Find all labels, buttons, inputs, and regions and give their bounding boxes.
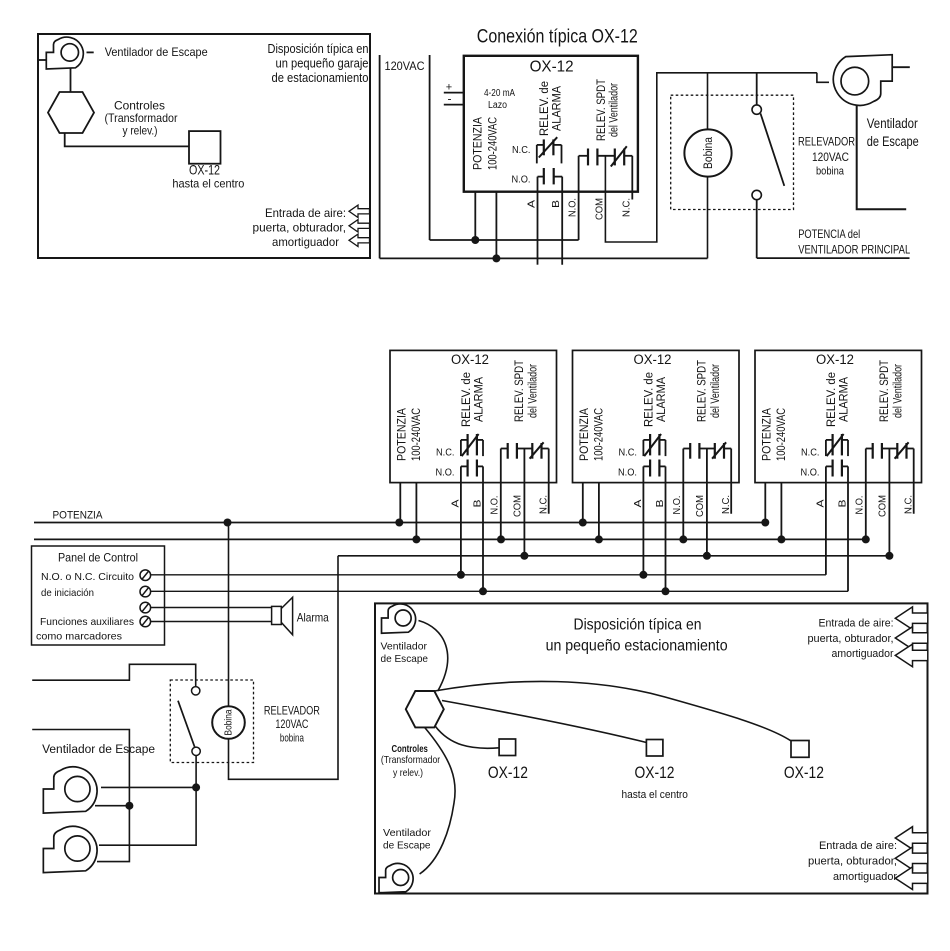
coil Bobina (lower relay) xyxy=(212,706,245,739)
OX-12 sensor square 2 xyxy=(646,740,663,757)
U3 SPDT fan relay contacts xyxy=(683,442,731,458)
wire: fan right stub xyxy=(87,51,94,53)
svg-text:N.C.: N.C. xyxy=(619,447,638,459)
svg-text:N.O.: N.O. xyxy=(488,496,500,515)
wire: hot bus to relay N.O. xyxy=(430,239,579,241)
svg-text:OX-12: OX-12 xyxy=(189,162,220,178)
svg-text:de Escape: de Escape xyxy=(383,840,431,852)
svg-text:ALARMA: ALARMA xyxy=(836,376,850,422)
4-20 mA loop terminal plus bar xyxy=(444,92,464,94)
coil Bobina (120VAC relay) xyxy=(684,129,731,176)
svg-text:RELEVADOR: RELEVADOR xyxy=(798,135,855,149)
svg-text:B: B xyxy=(550,200,562,208)
main exhaust fan top-right xyxy=(833,55,892,106)
svg-text:Ventilador de Escape: Ventilador de Escape xyxy=(42,744,155,756)
svg-text:N.O.: N.O. xyxy=(512,174,531,186)
air inlet arrow (top right) xyxy=(895,644,928,667)
svg-text:A: A xyxy=(632,500,644,508)
svg-text:ALARMA: ALARMA xyxy=(654,376,668,422)
U2 wire terminal N.O. xyxy=(500,449,502,540)
OX-12 detector unit U2 xyxy=(390,350,557,482)
junction dot bus3 xyxy=(703,552,711,560)
svg-text:B: B xyxy=(471,500,483,508)
svg-text:POTENZIA: POTENZIA xyxy=(471,116,485,170)
svg-text:bobina: bobina xyxy=(816,166,845,178)
enclosure box: Disposicion tipica estacionamiento xyxy=(375,603,928,893)
svg-text:un pequeño estacionamiento: un pequeño estacionamiento xyxy=(546,638,728,655)
svg-text:ALARMA: ALARMA xyxy=(471,376,485,422)
svg-text:amortiguador: amortiguador xyxy=(832,648,894,660)
junction dot initiation 2 xyxy=(479,587,487,595)
svg-text:N.O.: N.O. xyxy=(436,467,455,479)
svg-text:Entrada de aire:: Entrada de aire: xyxy=(265,206,346,220)
U2 wire POTENZIA 2 xyxy=(415,483,417,540)
svg-text:RELEV. SPDT: RELEV. SPDT xyxy=(695,360,709,422)
wire feed to fan 1 xyxy=(101,786,196,788)
wire terminal N.O. to hot bus xyxy=(578,156,580,240)
U4 wire POTENZIA 2 xyxy=(780,483,782,540)
svg-text:Disposición típica en: Disposición típica en xyxy=(268,42,369,56)
relay switch bottom contact xyxy=(192,747,200,755)
alarm relay N.C. contact (unused stubs) xyxy=(537,137,562,163)
svg-text:del Ventilador: del Ventilador xyxy=(890,364,904,418)
svg-text:100-240VAC: 100-240VAC xyxy=(774,408,788,461)
bus wire COM collector xyxy=(338,555,889,557)
svg-text:y relev.): y relev.) xyxy=(123,123,158,137)
svg-text:OX-12: OX-12 xyxy=(816,352,854,367)
svg-text:N.O.: N.O. xyxy=(853,496,865,515)
wire terminal B xyxy=(561,177,563,265)
alarm speaker xyxy=(272,597,293,635)
wire: main fan power line xyxy=(757,257,910,259)
svg-text:N.C.: N.C. xyxy=(801,447,820,459)
relay switch blade xyxy=(178,701,195,747)
svg-text:B: B xyxy=(836,500,848,508)
wire bus1 down to coil Bobina xyxy=(228,523,230,708)
svg-text:N.O. o N.C. Circuito: N.O. o N.C. Circuito xyxy=(41,571,134,583)
svg-text:4-20 mA: 4-20 mA xyxy=(484,88,515,99)
air inlet arrow (bottom right) xyxy=(895,827,928,850)
junction dot initiation 1 xyxy=(639,571,647,579)
wire: hexagon to OX-12 sensor xyxy=(65,133,189,146)
svg-text:Ventilador: Ventilador xyxy=(383,827,432,839)
svg-text:puerta, obturador,: puerta, obturador, xyxy=(808,633,894,645)
junction dot bus2 xyxy=(412,535,420,543)
svg-text:RELEVADOR: RELEVADOR xyxy=(264,706,320,718)
svg-text:Panel de Control: Panel de Control xyxy=(58,551,138,565)
OX-12 sensor square xyxy=(189,131,221,164)
svg-text:de estacionamiento: de estacionamiento xyxy=(272,71,369,85)
U3 wire terminal B xyxy=(665,466,667,591)
svg-text:N.C.: N.C. xyxy=(537,495,549,514)
svg-text:N.O.: N.O. xyxy=(567,198,579,217)
svg-text:POTENZIA: POTENZIA xyxy=(53,510,104,522)
panel screw terminal 2 xyxy=(140,586,151,597)
dashed outline relay (lower) xyxy=(170,680,253,763)
U2 SPDT fan relay contacts xyxy=(501,442,549,458)
controls hexagon (transformer and relays) xyxy=(48,92,94,133)
wire terminal COM to relay coil xyxy=(605,73,817,242)
svg-text:de iniciación: de iniciación xyxy=(41,587,94,599)
svg-text:Funciones auxiliares: Funciones auxiliares xyxy=(40,616,134,628)
svg-text:120VAC: 120VAC xyxy=(385,59,425,73)
svg-text:100-240VAC: 100-240VAC xyxy=(591,408,605,461)
svg-text:Ventilador: Ventilador xyxy=(867,116,918,131)
wire POTENZIA terminal 2 xyxy=(495,192,497,259)
svg-text:N.C.: N.C. xyxy=(902,495,914,514)
SPDT fan relay contacts xyxy=(579,146,633,166)
U2 wire terminal COM xyxy=(523,449,525,556)
wire: fan to controls hexagon xyxy=(70,66,72,93)
controls hexagon (parking) xyxy=(406,691,444,727)
wire curve hexagon to OX-12 sensor 1 xyxy=(436,727,500,749)
U4 wire terminal N.C. stub xyxy=(913,449,915,514)
junction dot bus2 xyxy=(679,535,687,543)
svg-text:OX-12: OX-12 xyxy=(451,352,489,367)
svg-text:POTENZIA: POTENZIA xyxy=(394,407,408,461)
U2 wire terminal B xyxy=(482,466,484,591)
U4 alarm relay N.C. contact xyxy=(826,434,848,456)
U3 wire terminal COM xyxy=(706,449,708,556)
wire auxiliary 2 to alarm xyxy=(151,621,272,623)
svg-text:puerta, obturador,: puerta, obturador, xyxy=(808,855,897,867)
svg-text:POTENZIA: POTENZIA xyxy=(759,407,773,461)
svg-text:del Ventilador: del Ventilador xyxy=(708,364,722,418)
junction dot fan return xyxy=(125,802,133,810)
junction dot initiation 2 xyxy=(662,587,670,595)
svg-text:Bobina: Bobina xyxy=(703,136,715,169)
wire curve hexagon to OX-12 sensor 2 xyxy=(442,701,646,743)
panel screw terminal 1 xyxy=(140,570,151,581)
wire: box edge to exhaust fan inlet xyxy=(38,59,46,61)
svg-text:de Escape: de Escape xyxy=(867,134,919,149)
svg-text:N.C.: N.C. xyxy=(512,144,531,156)
svg-text:OX-12: OX-12 xyxy=(784,764,824,782)
junction dot bus2 xyxy=(497,535,505,543)
svg-text:Ventilador de Escape: Ventilador de Escape xyxy=(105,45,208,59)
U2 wire terminal A xyxy=(460,466,462,574)
junction dot bus3 xyxy=(885,552,893,560)
relay switch top contact xyxy=(756,73,758,105)
U4 wire terminal N.O. xyxy=(865,449,867,540)
OX-12 sensor square 1 xyxy=(499,739,515,756)
svg-text:OX-12: OX-12 xyxy=(634,352,672,367)
U4 wire terminal COM xyxy=(888,449,890,556)
svg-text:Disposición típica en: Disposición típica en xyxy=(574,617,702,634)
wire: 120VAC supply right leg xyxy=(429,55,431,240)
svg-text:hasta el centro: hasta el centro xyxy=(172,177,244,191)
junction dot bus1 xyxy=(224,519,232,527)
wire: relay to main exhaust fan xyxy=(817,73,829,83)
junction dot bus2 xyxy=(862,535,870,543)
junction dot POTENZIA hot xyxy=(471,236,479,244)
air inlet arrow xyxy=(349,234,370,246)
wire stub lower / fans return xyxy=(32,730,129,862)
U4 wire terminal A xyxy=(825,466,827,574)
svg-text:B: B xyxy=(654,500,666,508)
svg-text:N.O.: N.O. xyxy=(801,467,820,479)
exhaust fan 1 (lower-left) xyxy=(43,767,97,813)
U2 wire terminal N.C. stub xyxy=(548,449,550,514)
svg-text:POTENZIA: POTENZIA xyxy=(577,407,591,461)
svg-text:N.C.: N.C. xyxy=(436,447,455,459)
svg-text:N.O.: N.O. xyxy=(671,496,683,515)
wire terminal A xyxy=(537,177,539,265)
svg-text:N.C.: N.C. xyxy=(720,495,732,514)
svg-text:RELEV. SPDT: RELEV. SPDT xyxy=(877,360,891,422)
svg-text:bobina: bobina xyxy=(280,733,305,745)
svg-text:Lazo: Lazo xyxy=(488,100,507,111)
exhaust fan 2 (lower-left) xyxy=(43,826,97,872)
wire: 120VAC supply left leg xyxy=(379,55,381,258)
svg-text:del Ventilador: del Ventilador xyxy=(606,83,620,137)
svg-text:COM: COM xyxy=(593,198,605,220)
dashed outline: relay 120VAC xyxy=(671,95,794,209)
wire curve hexagon to fan2 xyxy=(420,727,456,874)
svg-text:OX-12: OX-12 xyxy=(635,764,675,782)
svg-text:Bobina: Bobina xyxy=(224,709,235,735)
svg-text:N.O.: N.O. xyxy=(618,467,637,479)
svg-text:120VAC: 120VAC xyxy=(275,719,308,731)
svg-text:RELEV. SPDT: RELEV. SPDT xyxy=(512,360,526,422)
wire Bobina to COM bus xyxy=(229,556,339,780)
U4 alarm relay N.O. contact xyxy=(826,460,848,477)
wire: neutral bus to coil xyxy=(380,257,708,259)
svg-text:A: A xyxy=(526,200,538,208)
relay switch blade xyxy=(761,114,785,186)
bus wire POTENZIA line 2 xyxy=(34,538,866,540)
svg-text:COM: COM xyxy=(694,495,706,517)
U3 wire POTENZIA 2 xyxy=(598,483,600,540)
OX-12 sensor square 3 xyxy=(791,741,809,758)
wire POTENZIA terminal 1 xyxy=(474,192,476,240)
Panel de Control box xyxy=(32,546,165,645)
svg-text:COM: COM xyxy=(876,495,888,517)
junction dot bus2 xyxy=(777,535,785,543)
U3 wire terminal N.C. stub xyxy=(730,449,732,514)
wire switch to fans feed xyxy=(99,756,196,846)
wire curve hexagon to OX-12 sensor 3 xyxy=(435,681,791,740)
svg-text:amortiguador: amortiguador xyxy=(272,235,339,249)
wire terminal N.C. stub xyxy=(631,156,633,200)
svg-text:y relev.): y relev.) xyxy=(393,767,423,779)
U3 wire terminal A xyxy=(642,466,644,574)
exhaust fan top (parking) xyxy=(382,604,416,633)
svg-text:-: - xyxy=(448,92,452,106)
wire auxiliary 1 to alarm xyxy=(151,607,272,609)
wire initiation circuit 1 xyxy=(151,574,826,576)
U4 SPDT fan relay contacts xyxy=(866,442,914,458)
OX-12 detector unit U3 xyxy=(573,350,740,482)
panel screw terminal 4 xyxy=(140,616,151,627)
svg-text:puerta, obturador,: puerta, obturador, xyxy=(253,221,347,235)
junction dot bus2 xyxy=(595,535,603,543)
svg-text:POTENCIA del: POTENCIA del xyxy=(798,227,860,241)
svg-text:(Transformador: (Transformador xyxy=(381,754,441,766)
U3 wire POTENZIA 1 xyxy=(582,483,584,523)
alarm relay N.O. contact xyxy=(538,168,563,184)
air inlet arrow (top right) xyxy=(895,627,928,650)
svg-text:OX-12: OX-12 xyxy=(488,764,528,782)
svg-text:Ventilador: Ventilador xyxy=(381,641,428,653)
OX-12 main unit box U1 xyxy=(464,56,638,192)
wire: fan bottom down and right xyxy=(857,105,907,209)
wire Bobina to neutral bus xyxy=(707,177,709,259)
air inlet arrow (bottom right) xyxy=(895,867,928,890)
svg-text:hasta el centro: hasta el centro xyxy=(621,789,688,801)
wire curve fan1 to hexagon xyxy=(419,621,448,692)
relay coil feed wire down to Bobina xyxy=(707,73,709,130)
U2 wire POTENZIA 1 xyxy=(399,483,401,523)
svg-text:A: A xyxy=(449,500,461,508)
U2 alarm relay N.O. contact xyxy=(461,460,483,477)
U3 alarm relay N.O. contact xyxy=(643,460,665,477)
svg-text:un pequeño garaje: un pequeño garaje xyxy=(276,57,369,71)
junction dot fan feed xyxy=(192,783,200,791)
wire stub to relay switch top xyxy=(32,664,196,686)
svg-text:de Escape: de Escape xyxy=(381,653,429,665)
junction dot initiation 1 xyxy=(457,571,465,579)
svg-text:VENTILADOR PRINCIPAL: VENTILADOR PRINCIPAL xyxy=(798,243,910,257)
svg-text:COM: COM xyxy=(511,495,523,517)
4-20 mA loop terminal minus bar xyxy=(444,104,464,106)
junction dot bus1 xyxy=(579,519,587,527)
svg-text:100-240VAC: 100-240VAC xyxy=(409,408,423,461)
svg-text:Entrada de aire:: Entrada de aire: xyxy=(819,840,897,852)
air inlet arrow xyxy=(349,205,370,217)
svg-text:OX-12: OX-12 xyxy=(530,59,574,76)
wire: fan output stub right xyxy=(892,66,910,68)
U3 alarm relay N.C. contact xyxy=(643,434,665,456)
U3 wire terminal N.O. xyxy=(682,449,684,540)
wire initiation circuit 2 xyxy=(151,590,848,592)
svg-text:Entrada de aire:: Entrada de aire: xyxy=(819,618,894,630)
svg-text:ALARMA: ALARMA xyxy=(549,85,563,131)
air inlet arrow (bottom right) xyxy=(895,847,928,870)
exhaust fan (blower) top-left xyxy=(46,37,83,69)
relay switch (lower) top contact xyxy=(192,687,200,695)
svg-text:como marcadores: como marcadores xyxy=(36,631,122,643)
junction dot POTENZIA neutral xyxy=(492,254,500,262)
svg-text:120VAC: 120VAC xyxy=(812,150,849,164)
svg-text:Alarma: Alarma xyxy=(297,611,329,625)
svg-text:amortiguador: amortiguador xyxy=(833,871,897,883)
U2 alarm relay N.C. contact xyxy=(461,434,483,456)
svg-text:A: A xyxy=(814,500,826,508)
bus wire POTENZIA line 1 xyxy=(34,522,765,524)
U4 wire terminal B xyxy=(847,466,849,591)
OX-12 detector unit U4 xyxy=(755,350,922,482)
air inlet arrow xyxy=(349,220,370,232)
junction dot bus1 xyxy=(761,519,769,527)
junction dot bus3 xyxy=(520,552,528,560)
svg-text:100-240VAC: 100-240VAC xyxy=(486,117,500,170)
svg-text:del Ventilador: del Ventilador xyxy=(525,364,539,418)
relay switch bottom contact xyxy=(752,190,761,199)
air inlet arrow (top right) xyxy=(895,607,928,630)
wire return fan 1 xyxy=(95,805,129,807)
panel screw terminal 3 xyxy=(140,602,151,613)
junction dot bus1 xyxy=(395,519,403,527)
svg-text:Conexión típica OX-12: Conexión típica OX-12 xyxy=(477,27,638,48)
svg-text:N.C.: N.C. xyxy=(620,198,632,217)
exhaust fan bottom (parking) xyxy=(379,863,413,892)
enclosure box: Disposicion tipica garage xyxy=(38,34,370,258)
U4 wire POTENZIA 1 xyxy=(764,483,766,523)
